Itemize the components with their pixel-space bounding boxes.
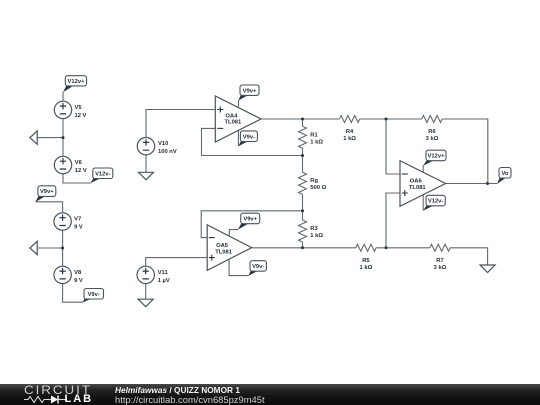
svg-text:9 V: 9 V <box>74 225 83 231</box>
svg-text:V12v-: V12v- <box>428 199 444 205</box>
svg-text:V9v-: V9v- <box>252 264 264 270</box>
svg-text:V9v+: V9v+ <box>243 217 257 223</box>
svg-text:V12v-: V12v- <box>95 171 111 177</box>
svg-text:V12v+: V12v+ <box>428 154 446 160</box>
svg-text:9 V: 9 V <box>74 278 83 284</box>
svg-text:V9v+: V9v+ <box>243 88 257 94</box>
svg-text:3 kΩ: 3 kΩ <box>426 136 439 142</box>
svg-text:Rg: Rg <box>310 178 318 184</box>
svg-text:V7: V7 <box>74 217 81 223</box>
svg-text:1 kΩ: 1 kΩ <box>343 136 356 142</box>
svg-text:V9v-: V9v- <box>243 134 255 140</box>
svg-text:3 kΩ: 3 kΩ <box>434 265 447 271</box>
svg-text:R7: R7 <box>436 258 443 264</box>
svg-text:TL081: TL081 <box>225 120 243 126</box>
svg-text:1 kΩ: 1 kΩ <box>310 233 323 239</box>
svg-text:V9v+: V9v+ <box>40 189 54 195</box>
svg-text:V9v-: V9v- <box>88 292 100 298</box>
svg-text:12 V: 12 V <box>75 168 87 174</box>
svg-text:TL081: TL081 <box>409 185 427 191</box>
svg-text:OA5: OA5 <box>216 243 229 249</box>
svg-text:1 µV: 1 µV <box>158 278 170 284</box>
svg-text:R5: R5 <box>362 258 370 264</box>
svg-text:V11: V11 <box>158 270 169 276</box>
svg-text:12 V: 12 V <box>75 113 87 119</box>
svg-text:TL081: TL081 <box>215 250 233 256</box>
svg-text:R4: R4 <box>346 129 354 135</box>
svg-text:1 kΩ: 1 kΩ <box>310 139 323 145</box>
svg-text:500 Ω: 500 Ω <box>310 185 326 191</box>
svg-text:V8: V8 <box>74 270 82 276</box>
svg-text:OA6: OA6 <box>410 178 423 184</box>
svg-text:R6: R6 <box>428 129 436 135</box>
svg-text:Vo: Vo <box>502 171 509 177</box>
svg-text:V10: V10 <box>158 141 168 147</box>
svg-text:V12v+: V12v+ <box>68 79 86 85</box>
svg-text:1 kΩ: 1 kΩ <box>360 265 373 271</box>
svg-text:OA4: OA4 <box>225 114 238 120</box>
svg-text:100 nV: 100 nV <box>158 149 177 155</box>
svg-text:R1: R1 <box>310 132 318 138</box>
svg-text:V5: V5 <box>75 105 83 111</box>
svg-text:R3: R3 <box>310 226 318 232</box>
svg-text:V6: V6 <box>75 160 83 166</box>
